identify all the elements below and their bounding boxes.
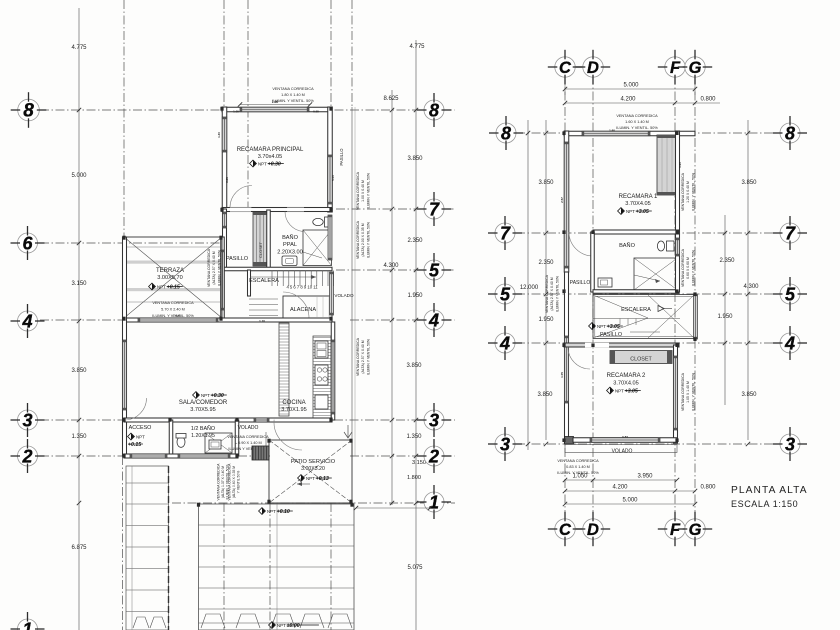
svg-text:ILUMIN. Y VENTIL. 50%: ILUMIN. Y VENTIL. 50% [691, 173, 695, 211]
wall pasillo-terraza divider [223, 209, 227, 270]
grid bubble right plan row4 left [488, 326, 522, 360]
svg-text:3.150: 3.150 [71, 281, 87, 287]
svg-text:3.00X3.20: 3.00X3.20 [301, 466, 325, 472]
grid column C right plan [564, 76, 566, 520]
svg-text:ILUMIN Y VENTIL 50%: ILUMIN Y VENTIL 50% [366, 173, 370, 209]
svg-text:RECAMARA PRINCIPAL: RECAMARA PRINCIPAL [237, 147, 304, 153]
grid bubble row 7 right [417, 192, 451, 226]
svg-text:1: 1 [22, 619, 32, 630]
svg-text:4.200: 4.200 [612, 485, 628, 491]
svg-text:1: 1 [429, 492, 439, 512]
svg-text:VENTANA CORREDICA: VENTANA CORREDICA [207, 248, 211, 287]
svg-text:5.000: 5.000 [622, 498, 638, 504]
svg-text:7: 7 [429, 199, 440, 219]
svg-text:C: C [559, 521, 572, 539]
svg-text:+0.13: +0.13 [316, 476, 329, 482]
grid column line D (left plan) [330, 0, 332, 107]
svg-text:8: 8 [23, 101, 34, 122]
door/wall jamb blocks right plan [562, 131, 565, 135]
grid bubble row 2 right [417, 439, 451, 473]
svg-text:3.150: 3.150 [412, 460, 426, 466]
window half-bath bottom [178, 454, 230, 458]
svg-text:5.075: 5.075 [407, 565, 423, 571]
svg-text:+0.30: +0.30 [268, 162, 281, 168]
svg-text:5.70: 5.70 [175, 314, 181, 318]
svg-text:4.300: 4.300 [743, 284, 759, 290]
grid bubble row 4 left [11, 304, 45, 338]
svg-text:PLANTA ALTA: PLANTA ALTA [731, 485, 808, 496]
stair block outline right plan [593, 295, 696, 339]
grid row 3 right plan [516, 443, 783, 445]
wall bath bottom / escalera top [222, 267, 332, 271]
bottom dim 5.000 [565, 503, 695, 505]
NPT marker patio [298, 475, 332, 482]
svg-text:ILUMIN. Y VENTIL. 50%: ILUMIN. Y VENTIL. 50% [272, 99, 314, 103]
svg-text:NPT: NPT [267, 509, 276, 514]
svg-text:TERRAZA: TERRAZA [156, 268, 184, 274]
grid row line 3 (left plan) [40, 419, 124, 421]
NPT marker recamara 1 [618, 208, 652, 215]
door/wall jamb blocks left plan [220, 107, 223, 111]
corner column dark bottom-left [565, 437, 574, 445]
svg-text:4.300: 4.300 [383, 263, 399, 269]
svg-text:(ALTA) 2.57 X 0.40 M: (ALTA) 2.57 X 0.40 M [361, 340, 365, 373]
patio servicio outline [269, 440, 352, 503]
NPT marker sala [193, 392, 227, 399]
grid bubble bottom left (cut) [11, 612, 45, 630]
column bubbles bottom [548, 512, 582, 546]
arrow down volado [265, 432, 267, 452]
grid row line 6 (left plan) [40, 242, 226, 244]
svg-text:3.70x4.05: 3.70x4.05 [258, 154, 283, 160]
svg-text:1.80 X 1.40 M: 1.80 X 1.40 M [281, 93, 305, 97]
svg-text:PATIO SERVICIO: PATIO SERVICIO [291, 459, 336, 465]
svg-text:4.775: 4.775 [71, 45, 87, 51]
svg-text:VENTANA CORREDICA: VENTANA CORREDICA [356, 337, 360, 376]
grid column line B (left plan) [223, 0, 225, 243]
svg-text:7: 7 [500, 223, 511, 243]
grid column F right plan [674, 76, 676, 520]
bottom dim 4.200/0.800 [565, 490, 695, 492]
window bath right (alta) [328, 215, 332, 260]
door arc recamara 2 [568, 347, 590, 369]
grid bubble row 8 right [417, 93, 451, 127]
svg-text:+3.05: +3.05 [625, 389, 638, 395]
svg-text:(ALTA) 2.00 X 0.35 M: (ALTA) 2.00 X 0.35 M [361, 223, 365, 256]
svg-text:PASILLO: PASILLO [339, 148, 344, 166]
svg-text:4: 4 [428, 310, 439, 330]
svg-text:3.00X5.70: 3.00X5.70 [157, 275, 183, 281]
left dim chain right plan inner [545, 120, 547, 440]
svg-text:+3.05: +3.05 [607, 324, 620, 330]
grid row 5 right plan [516, 293, 783, 295]
svg-text:PASILLO: PASILLO [226, 256, 248, 262]
right dim chain right plan inner [724, 215, 726, 405]
window bath right plan [676, 238, 680, 256]
window left wall upper (alta) [564, 142, 569, 268]
grid bubble row 4 right [417, 303, 451, 337]
svg-text:PPAL: PPAL [283, 242, 297, 248]
wall row2 bottom of acceso [124, 454, 238, 458]
grid bubble row 6 left [11, 226, 45, 260]
svg-text:3: 3 [500, 434, 510, 454]
svg-text:8.625: 8.625 [383, 96, 399, 102]
wall escalera left (x249) [248, 270, 251, 296]
NPT marker acceso [128, 433, 146, 440]
svg-text:PASILLO: PASILLO [570, 280, 591, 286]
svg-text:1.05: 1.05 [560, 372, 564, 378]
window labels right plan right mid [681, 248, 695, 287]
svg-text:D: D [587, 59, 599, 77]
shower half bath [205, 433, 232, 453]
left walkway band [126, 466, 169, 630]
window labels terraza right [207, 248, 221, 287]
svg-text:5.70 X 2.40 M: 5.70 X 2.40 M [161, 308, 185, 312]
svg-text:3.850: 3.850 [741, 180, 757, 186]
wall bottom recamara2 [573, 438, 677, 443]
window labels right plan left [545, 274, 559, 313]
garage door chevrons [133, 614, 352, 628]
svg-text:3.850: 3.850 [538, 180, 554, 186]
shower bano ppal [303, 230, 332, 266]
window labels right plan right lower [681, 372, 695, 411]
svg-text:VENTANA CORREDICA: VENTANA CORREDICA [356, 220, 360, 259]
svg-text:6.875: 6.875 [71, 545, 87, 551]
svg-text:2: 2 [21, 446, 32, 466]
grid row line 8 (left plan) [40, 109, 455, 111]
wall cocina right (x333) [331, 322, 335, 420]
grid bubble right plan row7 right [773, 216, 807, 250]
svg-text:8: 8 [429, 100, 439, 120]
svg-text:VENTANA CORREDICA: VENTANA CORREDICA [356, 171, 360, 210]
wall row7 under recamara (bath top) [222, 208, 332, 212]
svg-text:2.350: 2.350 [719, 258, 735, 264]
closet recamara ppal (grey strip) [253, 212, 267, 266]
door opening + arc recamara principal [230, 207, 251, 211]
svg-text:4.775: 4.775 [409, 44, 425, 50]
grid row 4 right plan [516, 342, 783, 344]
NPT marker recamara 2 [607, 387, 641, 394]
sink bano ppal [282, 256, 297, 266]
svg-text:ILUMIN Y VENTIL 50%: ILUMIN Y VENTIL 50% [217, 250, 221, 286]
svg-text:1.60: 1.60 [609, 129, 615, 133]
kitchen counter hatch right [313, 336, 331, 418]
svg-text:3.850: 3.850 [71, 368, 87, 374]
svg-text:0.55: 0.55 [313, 110, 319, 114]
svg-text:ILUMIN. Y VENTIL. 50%: ILUMIN. Y VENTIL. 50% [616, 126, 658, 130]
toilet bano ppal [313, 217, 330, 227]
grid bubble row 8 left [11, 92, 47, 128]
svg-text:PASILLO: PASILLO [600, 332, 622, 338]
bano ppal walls [267, 210, 271, 268]
window labels right plan right upper [681, 172, 695, 211]
window escalera right (alta) [330, 272, 334, 315]
wall terraza right double [221, 237, 225, 318]
svg-text:NPT: NPT [597, 324, 606, 329]
window recamara1 top [582, 131, 650, 136]
window recamara2 right [674, 356, 678, 430]
svg-text:3.850: 3.850 [537, 392, 553, 398]
svg-text:6: 6 [22, 233, 33, 253]
svg-text:ESCALERA: ESCALERA [621, 307, 651, 313]
wall top recamara 1 [564, 131, 695, 136]
grid bubble row 3 left [11, 403, 45, 437]
svg-text:ACCESO: ACCESO [129, 425, 152, 431]
svg-text:1.950: 1.950 [717, 314, 733, 320]
svg-text:5: 5 [429, 260, 440, 280]
svg-text:5: 5 [500, 284, 511, 304]
svg-text:1.20X1.95: 1.20X1.95 [191, 433, 215, 439]
sink right plan bath [598, 278, 612, 287]
svg-text:G: G [689, 521, 702, 539]
rotated window labels below half bath [217, 463, 230, 501]
svg-text:3.70X4.05: 3.70X4.05 [613, 381, 639, 387]
svg-text:1.20 X 0.40 M: 1.20 X 0.40 M [686, 181, 690, 203]
kitchen stove [315, 365, 328, 385]
window acceso bottom [130, 454, 167, 458]
svg-text:1.10: 1.10 [259, 319, 265, 323]
svg-text:3.70X1.95: 3.70X1.95 [281, 407, 307, 413]
window sala left [123, 340, 127, 410]
grid row line 7 (left plan) [336, 208, 455, 210]
svg-text:VENTANA CORREDICA: VENTANA CORREDICA [681, 372, 685, 411]
svg-text:3.850: 3.850 [741, 392, 757, 398]
window recamara principal right [328, 155, 333, 204]
svg-text:1.20: 1.20 [678, 162, 682, 168]
svg-text:1.950: 1.950 [407, 293, 423, 299]
wall left right-plan lower [565, 272, 569, 443]
svg-text:±0.00: ±0.00 [287, 623, 300, 629]
right dim chain right plan outer [747, 120, 749, 440]
svg-text:3.70X5.95: 3.70X5.95 [190, 407, 216, 413]
grid row line 4 (left plan) [40, 319, 124, 321]
svg-text:8: 8 [501, 123, 511, 143]
grid bubble right plan row3 right [773, 427, 807, 461]
svg-text:ILUMIN Y VENTIL 50%: ILUMIN Y VENTIL 50% [366, 339, 370, 375]
svg-text:VENTANA CORREDICA: VENTANA CORREDICA [681, 172, 685, 211]
shower right plan [634, 258, 678, 290]
grid column D right plan [592, 76, 594, 520]
svg-text:VENTANA CORREDICA: VENTANA CORREDICA [557, 459, 599, 463]
svg-text:D: D [587, 521, 599, 539]
grid bubble row 5 right [417, 253, 451, 287]
svg-text:7: 7 [785, 223, 796, 243]
window arrow patio [347, 425, 349, 437]
NPT marker driveway top [259, 508, 293, 515]
wall left sala (x124) [123, 237, 127, 456]
svg-text:2.20X3.00: 2.20X3.00 [277, 250, 303, 256]
svg-text:ALACENA: ALACENA [290, 307, 316, 313]
window terraza right (alta) [221, 250, 225, 310]
wall row7 bath top [593, 230, 679, 234]
svg-text:VENTANA CORREDICA: VENTANA CORREDICA [545, 274, 549, 313]
kitchen sink [315, 341, 328, 358]
door arc acceso entry [125, 398, 147, 420]
grid bubble row 3 right [417, 403, 451, 437]
wall left right-plan [564, 131, 569, 272]
window labels right edge lower [356, 337, 370, 376]
window sala top (terraza) [138, 318, 218, 322]
svg-text:4: 4 [499, 333, 510, 353]
terraza X cross [124, 237, 222, 318]
svg-text:CLOSET: CLOSET [630, 357, 652, 363]
window cocina right (alta) [331, 340, 335, 414]
svg-text:2.350: 2.350 [407, 238, 423, 244]
stair mid landing line [593, 318, 680, 320]
volado outline [565, 445, 677, 453]
svg-text:3: 3 [22, 410, 32, 430]
svg-text:+0.10: +0.10 [277, 509, 290, 515]
svg-text:RECAMARA 1: RECAMARA 1 [619, 194, 658, 200]
grid row 8 right plan [516, 132, 783, 134]
door arc alacena [283, 292, 309, 318]
svg-text:3.85: 3.85 [225, 177, 229, 183]
svg-text:+0.30: +0.30 [211, 393, 224, 399]
dimension chain left of left plan [78, 8, 80, 630]
laundry machine dark [252, 446, 269, 460]
stair diagonals [593, 295, 648, 318]
svg-text:3.850: 3.850 [406, 363, 422, 369]
svg-text:VENTANA CORREDICA: VENTANA CORREDICA [227, 435, 269, 439]
NPT marker driveway bottom [269, 622, 319, 629]
svg-text:→0.90 X 1.40 M: →0.90 X 1.40 M [234, 441, 261, 445]
svg-text:1.05: 1.05 [233, 110, 239, 114]
grid column line E (left plan) [351, 0, 353, 107]
svg-text:1.60 X 1.40 M: 1.60 X 1.40 M [625, 120, 649, 124]
svg-text:1.00 X 0.40 M: 1.00 X 0.40 M [361, 180, 365, 202]
grid bubble right plan row8 left [489, 116, 523, 150]
svg-text:VENTANA CORREDICA: VENTANA CORREDICA [272, 87, 314, 91]
svg-text:3: 3 [429, 410, 439, 430]
svg-text:VENTANA CORREDICA: VENTANA CORREDICA [616, 114, 658, 118]
wall right recamara2 [674, 345, 678, 443]
lot boundary below left plan [122, 456, 124, 630]
right volado edge line [351, 107, 353, 456]
patio servicio X cross [269, 440, 352, 503]
toilet right plan bath [657, 241, 674, 251]
svg-text:1.05 X 1.40 M: 1.05 X 1.40 M [686, 381, 690, 403]
svg-text:1.800: 1.800 [407, 475, 421, 481]
svg-text:ILUMIN Y VENTIL 50%: ILUMIN Y VENTIL 50% [691, 250, 695, 286]
grid row line 5 (left plan) [336, 269, 455, 271]
svg-text:BAÑO: BAÑO [282, 234, 299, 241]
window recamara2 bottom [590, 438, 660, 443]
grid bubble row 2 left [11, 439, 45, 473]
svg-text:VENTANA CORREDICA: VENTANA CORREDICA [681, 248, 685, 287]
left dim chain right plan outer (12.000) [527, 120, 529, 450]
wall row4 recamara2 top [564, 343, 679, 347]
svg-text:ESCALERA: ESCALERA [249, 278, 279, 284]
wall recamara principal left [222, 107, 227, 210]
svg-text:5.000: 5.000 [71, 173, 87, 179]
svg-text:F: F [670, 521, 681, 539]
toilet half bath [176, 434, 186, 448]
svg-text:3: 3 [785, 434, 795, 454]
grid bubble row 1 right [417, 485, 451, 519]
grid row line 1 (left plan) [172, 502, 455, 504]
door opening row4 [585, 343, 609, 348]
svg-text:F: F [670, 59, 681, 77]
grid bubble right plan row4 right [773, 326, 807, 360]
svg-text:12.000: 12.000 [520, 285, 539, 291]
wall row4 top of sala [124, 318, 332, 322]
svg-text:RECAMARA 2: RECAMARA 2 [607, 373, 646, 379]
window labels right edge mid [356, 220, 370, 259]
svg-text:8: 8 [785, 123, 795, 143]
svg-text:0.800: 0.800 [700, 97, 716, 103]
NPT marker pasillo alto [589, 323, 623, 330]
svg-text:0.800: 0.800 [700, 485, 716, 491]
svg-text:(ALTA) 2.57 X 0.40 M: (ALTA) 2.57 X 0.40 M [212, 251, 216, 284]
driveway band [199, 504, 355, 630]
svg-text:NPT: NPT [306, 476, 315, 481]
svg-text:NPT: NPT [157, 284, 166, 289]
svg-text:NPT: NPT [277, 623, 286, 628]
svg-text:1.350: 1.350 [406, 434, 422, 440]
terraza slat bands [126, 247, 220, 302]
svg-text:NPT: NPT [626, 209, 635, 214]
svg-text:(ALTA) 1.37 X 0.40 M: (ALTA) 1.37 X 0.40 M [221, 466, 225, 498]
door arc recamara1 [569, 232, 593, 256]
door arc cocina-patio [274, 420, 302, 450]
svg-text:1/2 BAÑO: 1/2 BAÑO [191, 425, 215, 432]
svg-text:0.83 X 1.40 M: 0.83 X 1.40 M [566, 465, 590, 469]
wall recamara principal top [222, 107, 332, 112]
svg-text:1.050: 1.050 [572, 474, 588, 480]
svg-text:ILUMIN Y VENTIL 50%: ILUMIN Y VENTIL 50% [366, 222, 370, 258]
kitchen fridge [315, 395, 328, 409]
svg-text:1.950: 1.950 [538, 317, 554, 323]
NPT marker recamara principal [250, 160, 284, 167]
svg-text:+3.05: +3.05 [636, 209, 649, 215]
svg-text:VOLADO: VOLADO [238, 425, 259, 431]
grid column line C (left plan) [247, 0, 249, 209]
svg-text:SALA/COMEDOR: SALA/COMEDOR [179, 400, 228, 406]
svg-text:ILUMIN. Y VENTIL. 50%: ILUMIN. Y VENTIL. 50% [691, 373, 695, 411]
wall right bath [676, 234, 680, 292]
grid row 7 right plan [516, 232, 783, 234]
grid column line A (left plan) [123, 0, 125, 237]
window recamara principal top (ventana corrediza) [240, 107, 309, 112]
svg-text:COCINA: COCINA [282, 400, 305, 406]
svg-text:4: 4 [784, 333, 795, 353]
window labels right edge upper [356, 171, 370, 210]
svg-text:NPT: NPT [136, 434, 145, 439]
grid bubble right plan row7 left [488, 216, 522, 250]
svg-text:VOLADO: VOLADO [612, 449, 633, 455]
wall half-bath right [235, 420, 239, 456]
svg-text:4.200: 4.200 [620, 97, 636, 103]
svg-text:3.950: 3.950 [637, 474, 653, 480]
svg-text:1.350: 1.350 [71, 434, 87, 440]
window stair bump [694, 294, 698, 339]
svg-text:2.57: 2.57 [560, 197, 564, 203]
svg-text:2: 2 [428, 446, 439, 466]
svg-text:4 5 6 7 8 9 10 11: 4 5 6 7 8 9 10 11 [286, 285, 318, 290]
svg-text:5: 5 [785, 284, 796, 304]
svg-text:5.000: 5.000 [623, 83, 639, 89]
svg-text:ESCALA 1:150: ESCALA 1:150 [731, 499, 798, 509]
NPT marker terraza [149, 283, 183, 290]
wall bath left [591, 232, 595, 292]
svg-text:+0.15: +0.15 [167, 285, 180, 291]
svg-text:(ALTA) 0.60 X 0.35 M: (ALTA) 0.60 X 0.35 M [232, 466, 236, 498]
svg-text:2.350: 2.350 [538, 260, 554, 266]
dimension chain outer right of left plan [415, 40, 417, 630]
svg-text:5.00: 5.00 [331, 175, 335, 181]
svg-text:(ALTA) 2.57 X 0.40 M: (ALTA) 2.57 X 0.40 M [550, 277, 554, 310]
wall bath bottom [593, 290, 679, 294]
